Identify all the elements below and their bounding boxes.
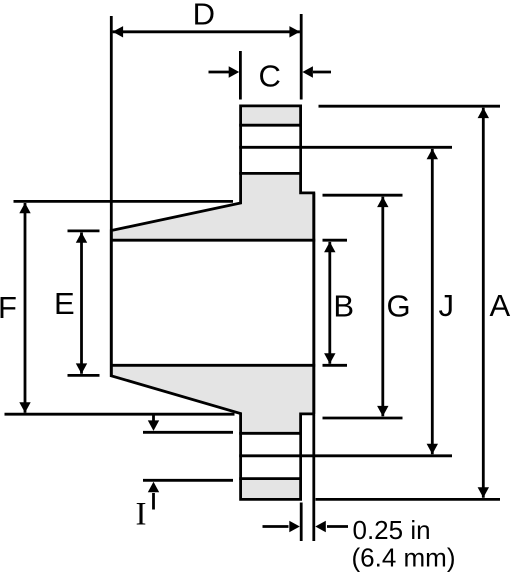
raised face thickness left extension line	[300, 503, 303, 542]
bolt circle upper line / J top extension	[239, 146, 452, 149]
raised face thickness right extension line	[312, 415, 315, 541]
bolt hole upper white band	[242, 127, 299, 172]
C right arrow	[313, 71, 331, 74]
I bottom extension line	[143, 479, 233, 482]
bolt hole upper edge lines	[239, 124, 302, 127]
dimension B line with arrows	[328, 242, 331, 364]
svg-text:(6.4 mm): (6.4 mm)	[352, 543, 456, 573]
svg-text:I: I	[136, 497, 147, 533]
D right extension line	[300, 14, 303, 100]
bolt hole lower white band	[242, 435, 299, 477]
raised face dim right arrow	[327, 525, 348, 528]
svg-text:G: G	[387, 289, 411, 324]
flange cross-section body	[111, 106, 313, 500]
bore bottom line	[110, 364, 315, 367]
raised face edge line	[312, 193, 315, 414]
I top arrow	[152, 416, 155, 422]
dimension D line with arrows	[113, 30, 300, 33]
G bottom extension line	[323, 417, 403, 420]
dimension G line with arrows	[381, 197, 384, 416]
bore white band	[113, 242, 312, 364]
dimension F line with arrows	[24, 203, 27, 413]
svg-text:J: J	[439, 288, 455, 323]
C left extension line	[239, 51, 242, 100]
A bottom extension line	[316, 498, 501, 501]
G top extension line	[323, 194, 403, 197]
C left arrow	[209, 71, 230, 74]
bolt hole lower edge lines	[239, 432, 302, 435]
hub end face and D left extension line	[110, 16, 113, 377]
svg-text:F: F	[0, 290, 17, 325]
F top extension line	[14, 200, 234, 203]
E bottom extension line	[68, 374, 100, 377]
svg-text:C: C	[259, 59, 281, 94]
A top extension line	[319, 105, 501, 108]
svg-text:B: B	[333, 289, 354, 324]
E top extension line	[68, 229, 100, 232]
svg-text:D: D	[193, 0, 215, 31]
F bottom extension line	[5, 413, 235, 416]
I bottom arrow	[152, 493, 155, 510]
dimension J line with arrows	[431, 149, 434, 454]
dimension E line with arrows	[80, 233, 83, 374]
B bottom extension line	[323, 364, 348, 367]
svg-text:0.25 in: 0.25 in	[353, 515, 431, 545]
dimension A line with arrows	[482, 108, 485, 498]
bolt circle lower line / J bottom extension	[239, 454, 452, 457]
I top extension line	[143, 431, 233, 434]
svg-text:E: E	[54, 286, 75, 321]
B top extension line	[323, 239, 348, 242]
raised face dim left arrow	[263, 525, 289, 528]
bore top line	[110, 239, 315, 242]
svg-text:A: A	[490, 288, 511, 323]
